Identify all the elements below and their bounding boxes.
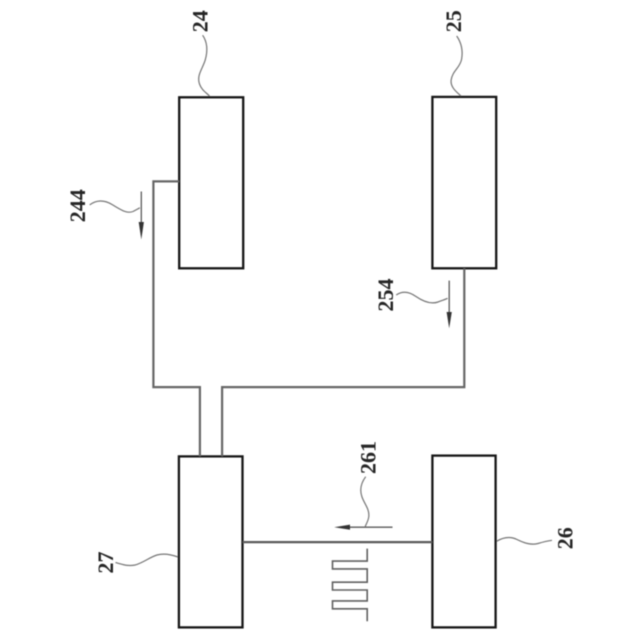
leader line for 24	[199, 35, 210, 96]
label 24	[187, 10, 212, 32]
leader line for 26	[497, 538, 553, 545]
box 25	[432, 97, 496, 268]
svg-text:24: 24	[187, 10, 212, 32]
label 261	[356, 441, 381, 474]
arrow 244 (downward)	[139, 192, 144, 240]
svg-text:244: 244	[65, 189, 90, 222]
leader line for 244	[90, 201, 140, 212]
label 27	[93, 552, 118, 574]
box 27	[179, 456, 243, 627]
leader line for 254	[396, 292, 447, 303]
svg-text:25: 25	[441, 10, 466, 32]
wire from box 27 to box 26	[243, 541, 433, 543]
arrow 261 (leftward)	[334, 525, 392, 530]
label 25	[441, 10, 466, 32]
wire from box 25 to box 27	[222, 268, 464, 456]
svg-text:27: 27	[93, 552, 118, 574]
label 244	[65, 189, 90, 222]
label 26	[553, 527, 578, 549]
svg-text:26: 26	[553, 527, 578, 549]
svg-text:254: 254	[373, 279, 398, 312]
leader line for 27	[116, 554, 179, 565]
box 24	[179, 97, 243, 268]
square wave symbol under wire 27-26	[333, 549, 368, 622]
leader line for 261	[361, 477, 369, 527]
svg-text:261: 261	[356, 441, 381, 474]
arrow 254 (downward)	[447, 281, 452, 329]
label 254	[373, 279, 398, 312]
box 26	[432, 456, 495, 628]
leader line for 25	[451, 36, 462, 96]
wire from box 24 to box 27	[153, 181, 200, 456]
